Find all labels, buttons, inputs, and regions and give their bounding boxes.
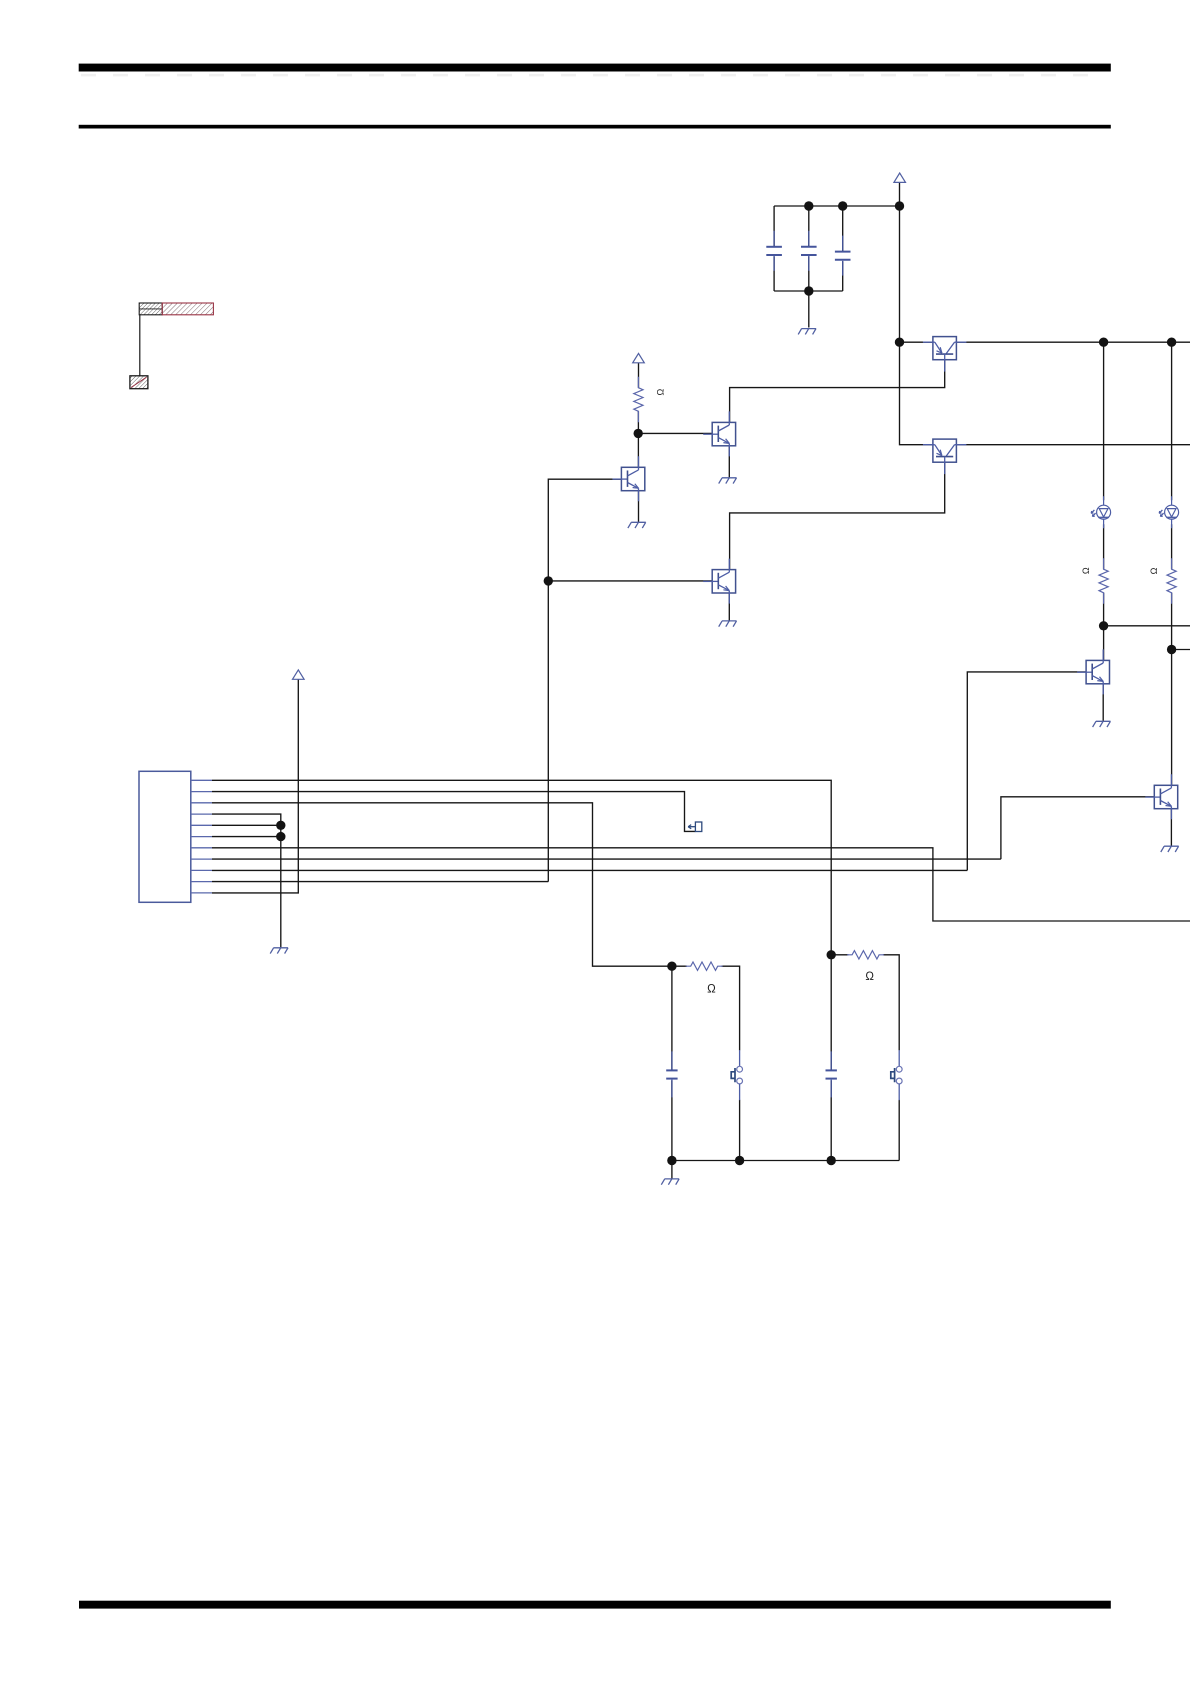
svg-text:Ω: Ω bbox=[707, 984, 716, 996]
svg-text:Ω: Ω bbox=[865, 971, 874, 983]
svg-text:Ω: Ω bbox=[1081, 567, 1091, 574]
svg-text:Ω: Ω bbox=[1149, 567, 1159, 574]
svg-text:Ω: Ω bbox=[656, 388, 666, 395]
